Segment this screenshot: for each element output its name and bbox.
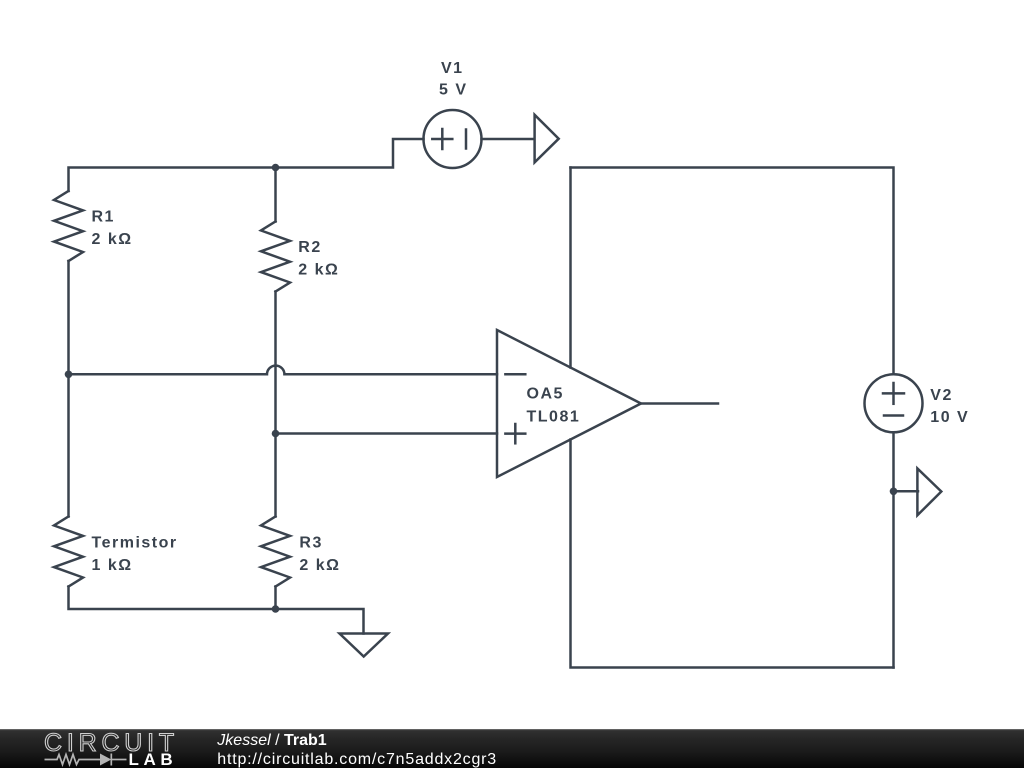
svg-text:Termistor: Termistor xyxy=(92,534,178,551)
svg-text:R3: R3 xyxy=(299,534,322,551)
svg-text:http://circuitlab.com/c7n5addx: http://circuitlab.com/c7n5addx2cgr3 xyxy=(217,751,497,768)
op-amp plus symbol xyxy=(505,424,525,443)
wire top-left horizontal (R1 top to node A to V1 jog) xyxy=(69,139,424,191)
wire bottom rail to op-amp V- pin xyxy=(571,440,894,668)
label R1 value 2 kOhm xyxy=(92,231,133,248)
label Termistor value 1 kOhm xyxy=(92,557,133,574)
wire Termistor bottom to bottom rail xyxy=(69,587,276,610)
op-amp minus symbol xyxy=(505,373,525,376)
wire V2 bottom to node D and down to bottom rail xyxy=(892,432,895,667)
wire R2 bottom through hop to node C xyxy=(274,292,277,434)
svg-text:2 kΩ: 2 kΩ xyxy=(92,231,133,248)
svg-text:OA5: OA5 xyxy=(527,386,564,403)
wire node B down to Termistor xyxy=(67,374,70,516)
wire node C down to R3 xyxy=(274,434,277,517)
label V2 value 10 V xyxy=(930,409,969,426)
resistor R1 xyxy=(54,191,83,261)
svg-text:V2: V2 xyxy=(930,387,953,404)
svg-text:LAB: LAB xyxy=(129,750,178,768)
label R3 name xyxy=(299,534,322,551)
svg-text:5 V: 5 V xyxy=(439,82,468,99)
banner URL text xyxy=(217,751,497,768)
wire non-inverting input (node C to op-amp plus) xyxy=(276,432,498,435)
label OA5 name xyxy=(527,386,564,403)
label R1 name xyxy=(92,209,115,226)
wire op-amp output xyxy=(641,402,718,405)
wire ground stub from bottom rail xyxy=(276,609,364,634)
ground node junction dot xyxy=(272,605,280,613)
label V2 name xyxy=(930,387,953,404)
label R2 value 2 kOhm xyxy=(298,262,339,279)
resistor Termistor xyxy=(54,517,83,587)
label Termistor name xyxy=(92,534,178,551)
wire top rail to V2 xyxy=(571,168,894,375)
svg-text:2 kΩ: 2 kΩ xyxy=(298,262,339,279)
wire V1 to output flag xyxy=(482,138,535,141)
wire R3 bottom to ground node xyxy=(274,587,277,610)
label V1 name xyxy=(441,60,464,77)
resistor R2 xyxy=(261,222,290,292)
flag VEE (net flag below V2) xyxy=(917,469,941,516)
voltage source V1 xyxy=(424,110,482,168)
CircuitLab logo wordmark LAB xyxy=(129,750,178,768)
op-amp OA5 triangle xyxy=(497,330,641,477)
label OA5 part TL081 xyxy=(527,409,581,426)
wire node D to output flag xyxy=(894,490,919,493)
banner author/title text Jkessel / Trab1 xyxy=(216,732,326,749)
svg-text:Jkessel / Trab1: Jkessel / Trab1 xyxy=(216,732,326,749)
wire inverting input (node B to op-amp minus) with hop xyxy=(69,366,498,375)
banner background xyxy=(0,729,1024,768)
label R2 name xyxy=(298,239,321,256)
node D junction dot xyxy=(890,488,898,496)
CircuitLab logo wordmark CIRCUIT xyxy=(44,729,179,757)
label R3 value 2 kOhm xyxy=(299,557,340,574)
ground symbol xyxy=(340,634,389,657)
svg-text:V1: V1 xyxy=(441,60,464,77)
svg-text:10 V: 10 V xyxy=(930,409,969,426)
svg-text:1 kΩ: 1 kΩ xyxy=(92,557,133,574)
svg-text:R1: R1 xyxy=(92,209,115,226)
wire R1 bottom to node B xyxy=(67,261,70,374)
wire node A down to R2 xyxy=(274,168,277,222)
label V1 value 5 V xyxy=(439,82,468,99)
svg-text:2 kΩ: 2 kΩ xyxy=(299,557,340,574)
bottom CircuitLab banner bar xyxy=(0,729,1024,768)
node A junction dot xyxy=(272,164,280,172)
resistor R3 xyxy=(261,517,290,587)
voltage source V2 xyxy=(865,374,923,432)
svg-text:TL081: TL081 xyxy=(527,409,581,426)
svg-text:R2: R2 xyxy=(298,239,321,256)
node B junction dot xyxy=(65,371,73,379)
CircuitLab logo resistor-diode doodle xyxy=(45,754,127,766)
flag VCC (net flag at V1 output) xyxy=(535,115,559,163)
node C junction dot xyxy=(272,430,280,438)
wire op-amp V+ pin up to top rail xyxy=(569,168,572,368)
